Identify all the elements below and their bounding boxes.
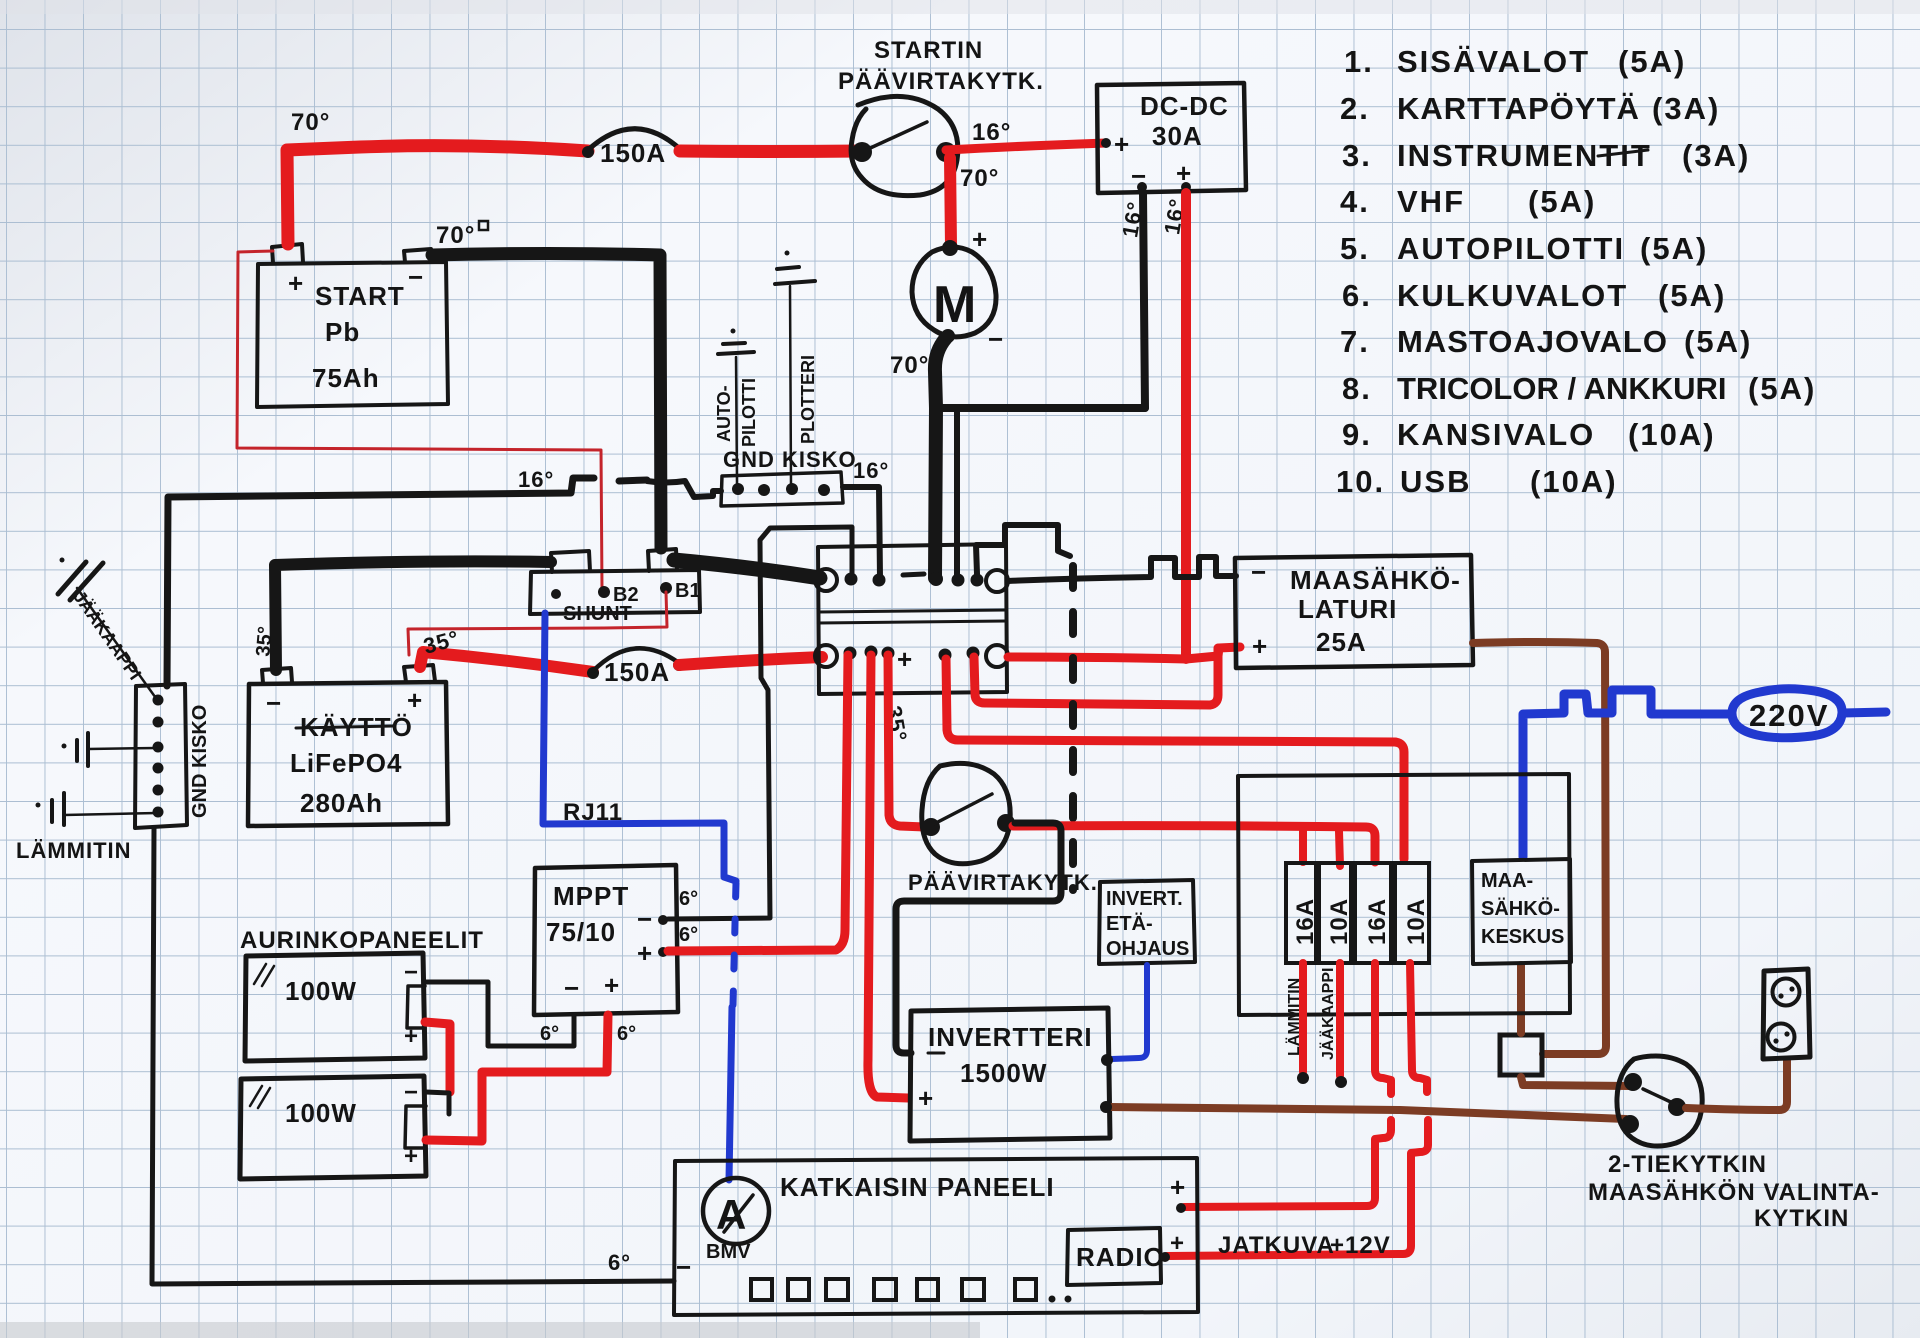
AC source 220V bbox=[1732, 689, 1886, 738]
svg-text:−: − bbox=[1251, 557, 1267, 587]
AC inlet connector block (square) bbox=[1500, 1035, 1542, 1075]
wire: busbar + ring to shore charger + (red) bbox=[1008, 647, 1240, 659]
svg-text:BMV: BMV bbox=[706, 1241, 751, 1263]
svg-text:MAA-: MAA- bbox=[1481, 870, 1533, 892]
svg-text:AUTOPILOTTI: AUTOPILOTTI bbox=[1397, 231, 1625, 266]
svg-text:16A: 16A bbox=[1364, 898, 1391, 945]
svg-text:GND KISKO: GND KISKO bbox=[189, 705, 211, 818]
svg-text:7.: 7. bbox=[1340, 324, 1370, 359]
shore panel MAA-SAHKO-KESKUS bbox=[1472, 859, 1571, 964]
svg-text:SÄHKÖ-: SÄHKÖ- bbox=[1481, 897, 1560, 920]
svg-text:KULKUVALOT: KULKUVALOT bbox=[1397, 278, 1628, 313]
svg-text:70°: 70° bbox=[436, 222, 475, 249]
svg-text:16°: 16° bbox=[853, 458, 889, 483]
wire: 16mm2 black GND-kisko to busbar area with gap dash bbox=[167, 467, 647, 686]
ground rail GND KISKO 2 (mid) bbox=[647, 447, 857, 506]
solar charger U2 MPPT 75/10 bbox=[534, 865, 698, 1015]
svg-text:(5A): (5A) bbox=[1640, 231, 1708, 266]
svg-text:TRICOLOR / ANKKURI: TRICOLOR / ANKKURI bbox=[1397, 371, 1727, 406]
svg-text:MAASÄHKÖN VALINTA-: MAASÄHKÖN VALINTA- bbox=[1588, 1179, 1880, 1206]
busbar/battery-switch panel bbox=[815, 544, 1008, 744]
wire: 220V to shore panel (blue with hop) bbox=[1523, 690, 1731, 857]
svg-text:(5A): (5A) bbox=[1528, 184, 1596, 219]
wire: M - down and DC-DC - junction (black) bbox=[890, 193, 1190, 578]
svg-text:KESKUS: KESKUS bbox=[1481, 926, 1564, 948]
svg-text:+: + bbox=[1252, 631, 1268, 661]
svg-text:AURINKOPANEELIT: AURINKOPANEELIT bbox=[240, 927, 484, 954]
svg-text:A: A bbox=[716, 1191, 746, 1238]
svg-text:1.: 1. bbox=[1344, 44, 1374, 79]
svg-text:RADIO: RADIO bbox=[1076, 1242, 1165, 1272]
svg-text:6°: 6° bbox=[608, 1250, 631, 1275]
svg-text:+: + bbox=[1170, 1172, 1186, 1202]
node hook: spare terminal stub off busbar bbox=[976, 525, 1070, 574]
svg-text:+: + bbox=[897, 644, 913, 674]
shore charger U3 MAASAHKO-LATURI 25A bbox=[1235, 555, 1473, 668]
svg-text:Pb: Pb bbox=[325, 317, 360, 347]
solar panel PV2 100W bbox=[240, 1076, 426, 1179]
wire: fuse F2 to busbar + ring (red) bbox=[679, 657, 822, 665]
svg-text:+12V: +12V bbox=[1330, 1232, 1391, 1259]
svg-text:−: − bbox=[564, 973, 580, 1003]
svg-text:−: − bbox=[404, 959, 419, 986]
svg-text:JÄÄKAAPPI: JÄÄKAAPPI bbox=[1319, 968, 1337, 1060]
svg-text:−: − bbox=[408, 262, 424, 292]
svg-text:B1: B1 bbox=[675, 580, 701, 602]
wire: busbar + to main switch S2 (red) bbox=[888, 655, 925, 827]
wire: inverter AC out to selector switch (brown) bbox=[1110, 1107, 1626, 1119]
wire: fuse 16A-1 output to heater load bbox=[1285, 963, 1309, 1084]
svg-text:−: − bbox=[404, 1079, 419, 1106]
svg-text:AUTO-: AUTO- bbox=[714, 385, 734, 442]
svg-text:PÄÄVIRTAKYTK.: PÄÄVIRTAKYTK. bbox=[838, 68, 1044, 95]
breaker panel KATKAISIN PANEELI bbox=[674, 1158, 1198, 1315]
fuse block F5 16A bbox=[1355, 863, 1391, 963]
fuse block F3 16A bbox=[1286, 863, 1319, 963]
svg-text:KYTKIN: KYTKIN bbox=[1754, 1205, 1849, 1232]
svg-text:LATURI: LATURI bbox=[1298, 594, 1397, 624]
load tap capacitor symbol mid-left bbox=[62, 733, 158, 766]
wire: busbar - to shore charger - (black zigzag) bbox=[1008, 557, 1236, 581]
dashed route marker (bulkhead) bbox=[1069, 566, 1077, 890]
switch S1 STARTIN PAAVIRTAKYTK. bbox=[838, 37, 1044, 196]
wire: busbar + to aft fuse 10A-4 (red long) bbox=[946, 659, 1404, 859]
wire: LiFePO4 + to fuse F2 (35mm2 red) bbox=[420, 625, 593, 672]
wire: fuse F1 to main switch S1 (red) bbox=[680, 145, 862, 159]
svg-text:35°: 35° bbox=[252, 625, 277, 657]
svg-text:6°: 6° bbox=[679, 924, 698, 946]
svg-text:4.: 4. bbox=[1340, 184, 1370, 219]
motor M1 bbox=[912, 224, 1004, 354]
svg-text:9.: 9. bbox=[1342, 417, 1372, 452]
inverter remote INVERT. ETA-OHJAUS bbox=[1099, 880, 1195, 964]
svg-text:30A: 30A bbox=[1152, 121, 1203, 151]
svg-text:−: − bbox=[637, 904, 653, 934]
svg-text:STARTIN: STARTIN bbox=[874, 37, 983, 64]
svg-text:(10A): (10A) bbox=[1530, 464, 1618, 499]
fuse block F4 10A bbox=[1319, 863, 1353, 963]
svg-text:+: + bbox=[1170, 1230, 1185, 1257]
wire: shore center to connector (brown) bbox=[1517, 965, 1525, 1033]
svg-text:(5A): (5A) bbox=[1658, 278, 1726, 313]
svg-text:100W: 100W bbox=[285, 1098, 357, 1128]
svg-text:6°: 6° bbox=[617, 1023, 636, 1045]
svg-text:START: START bbox=[315, 281, 405, 311]
svg-text:6.: 6. bbox=[1342, 278, 1372, 313]
load tap AUTO-PILOTTI on gnd rail bbox=[714, 329, 759, 485]
svg-text:(5A): (5A) bbox=[1684, 324, 1752, 359]
svg-text:−: − bbox=[266, 688, 282, 718]
node B2 bbox=[598, 584, 639, 606]
wire: selector to outlet (brown) bbox=[1686, 1060, 1787, 1110]
ground rail GND KISKO left bbox=[135, 684, 211, 828]
wire: S1 to motor M + (70mm2 red) bbox=[950, 158, 999, 246]
svg-text:SHUNT: SHUNT bbox=[563, 603, 632, 625]
svg-text:(10A): (10A) bbox=[1628, 417, 1716, 452]
fuse F2 150A bbox=[587, 648, 685, 687]
svg-text:(5A): (5A) bbox=[1748, 371, 1816, 406]
svg-text:INVERTTERI: INVERTTERI bbox=[928, 1022, 1093, 1052]
svg-text:+: + bbox=[604, 970, 620, 1000]
svg-text:150A: 150A bbox=[604, 657, 670, 687]
wire: thin red B1/B2 sense to LiFePO4 + bbox=[408, 592, 667, 655]
svg-text:100W: 100W bbox=[285, 976, 357, 1006]
svg-text:DC-DC: DC-DC bbox=[1140, 91, 1229, 121]
svg-text:USB: USB bbox=[1400, 464, 1471, 499]
svg-text:PLOTTERI: PLOTTERI bbox=[798, 355, 818, 444]
svg-text:5.: 5. bbox=[1340, 231, 1370, 266]
svg-text:10A: 10A bbox=[1326, 898, 1353, 945]
svg-text:8.: 8. bbox=[1342, 371, 1372, 406]
wire: PV1 + to PV2 - (series link) bbox=[425, 1022, 450, 1092]
load list: fuse legend items 1-10 bbox=[1336, 44, 1816, 499]
wire: remote to inverter (blue) bbox=[1112, 965, 1147, 1059]
svg-text:16°: 16° bbox=[972, 119, 1011, 146]
svg-text:75/10: 75/10 bbox=[546, 917, 616, 947]
svg-text:+: + bbox=[1114, 129, 1130, 159]
wire: gnd rail 2 to busbar (16mm2) bbox=[843, 458, 889, 578]
wire: MPPT + to busbar + (red) bbox=[668, 655, 848, 951]
wire: MPPT - to busbar (6mm2 black) bbox=[668, 527, 852, 919]
svg-text:10A: 10A bbox=[1403, 898, 1430, 945]
svg-text:KATKAISIN PANEELI: KATKAISIN PANEELI bbox=[780, 1172, 1055, 1202]
wire: thin red START + sense to shunt B2 bbox=[237, 251, 602, 589]
svg-text:LiFePO4: LiFePO4 bbox=[290, 748, 402, 778]
wire: fuse feed drop 10A-2 bbox=[1339, 831, 1340, 866]
svg-text:+: + bbox=[288, 268, 304, 298]
solar panel PV1 100W bbox=[245, 953, 425, 1061]
wire: LiFePO4 - to shunt left post (35mm2 black) bbox=[252, 561, 551, 670]
svg-text:75Ah: 75Ah bbox=[312, 363, 380, 393]
fuse block F6 10A bbox=[1395, 863, 1430, 963]
wire: START + to fuse F1 (70mm2 red) bbox=[287, 109, 588, 244]
wire: DC-DC + down (red) bbox=[1181, 193, 1191, 659]
svg-text:3.: 3. bbox=[1342, 138, 1372, 173]
svg-text:LÄMMITIN: LÄMMITIN bbox=[16, 838, 132, 863]
svg-text:1500W: 1500W bbox=[960, 1058, 1047, 1088]
svg-text:6°: 6° bbox=[679, 888, 698, 910]
svg-text:6°: 6° bbox=[540, 1023, 559, 1045]
svg-text:16A: 16A bbox=[1292, 898, 1319, 945]
battery monitor BMV bbox=[703, 1178, 769, 1263]
svg-text:MAASÄHKÖ-: MAASÄHKÖ- bbox=[1290, 565, 1461, 595]
svg-text:10.: 10. bbox=[1336, 464, 1385, 499]
wire: shunt to busbar ring (35mm2 black diagonal) bbox=[674, 560, 820, 578]
svg-text:RJ11: RJ11 bbox=[563, 799, 623, 826]
svg-text:+: + bbox=[407, 685, 423, 715]
fuse F1 150A bbox=[582, 129, 686, 168]
wire: S2 to fuse block 16A/10A/16A (red) bbox=[1013, 826, 1375, 862]
node B1 bbox=[660, 580, 701, 602]
svg-text:16°: 16° bbox=[518, 467, 554, 492]
shunt R-SHUNT bbox=[530, 549, 700, 625]
wire: connector to selector switch top (brown) bbox=[1521, 1077, 1630, 1086]
svg-text:−: − bbox=[988, 324, 1004, 354]
load JAAKAAPPI tap to gnd rail bbox=[58, 558, 158, 702]
svg-text:M: M bbox=[933, 276, 976, 334]
wire: START - to shunt (70mm2 black) bbox=[432, 221, 661, 548]
wire: busbar + to inverter + (red) bbox=[868, 655, 908, 1098]
svg-text:70°: 70° bbox=[890, 352, 929, 379]
svg-text:70°: 70° bbox=[960, 165, 999, 192]
load tap PLOTTERI on gnd rail bbox=[775, 251, 818, 486]
inverter U4 INVERTTERI 1500W bbox=[910, 1008, 1110, 1141]
svg-text:PILOTTI: PILOTTI bbox=[739, 378, 759, 447]
svg-text:KANSIVALO: KANSIVALO bbox=[1397, 417, 1595, 452]
switch S2 PAAVIRTAKYTK bbox=[908, 763, 1098, 895]
svg-text:2-TIEKYTKIN: 2-TIEKYTKIN bbox=[1608, 1151, 1767, 1178]
svg-text:ETÄ-: ETÄ- bbox=[1106, 912, 1153, 935]
svg-text:+: + bbox=[637, 938, 653, 968]
svg-text:+: + bbox=[918, 1083, 934, 1113]
svg-text:MPPT: MPPT bbox=[553, 881, 629, 911]
svg-text:−: − bbox=[676, 1252, 692, 1282]
load LAMMITIN tap to gnd rail bbox=[16, 793, 157, 863]
battery B1 START Pb 75Ah : box bbox=[257, 244, 448, 407]
radio RADIO box bbox=[1067, 1228, 1185, 1285]
svg-text:150A: 150A bbox=[600, 138, 666, 168]
wire: RJ11 control cable shunt to BMV (blue) bbox=[543, 613, 736, 1180]
svg-text:LÄMMITIN: LÄMMITIN bbox=[1285, 978, 1303, 1056]
wire: fuse 16A-3 output to breaker panel + bbox=[1375, 963, 1391, 1094]
AC distribution enclosure (big box) bbox=[1238, 774, 1570, 1015]
wire: S1 to DC-DC + input (16mm2 red) bbox=[946, 119, 1106, 150]
svg-text:70°: 70° bbox=[291, 109, 330, 136]
wire: busbar + to shore charger + (red) bbox=[974, 648, 1218, 705]
converter U1 DC-DC 30A bbox=[1097, 83, 1246, 193]
svg-text:25A: 25A bbox=[1316, 627, 1367, 657]
svg-text:KARTTAPÖYTÄ: KARTTAPÖYTÄ bbox=[1397, 91, 1640, 126]
svg-text:OHJAUS: OHJAUS bbox=[1106, 938, 1189, 960]
battery B2 KAYTTO LiFePO4 280Ah bbox=[248, 665, 448, 826]
svg-text:(3A): (3A) bbox=[1652, 91, 1720, 126]
selector switch S3 2-TIEKYTKIN bbox=[1588, 1056, 1880, 1232]
wire: fuse feed drop 16A-1 bbox=[1299, 831, 1307, 862]
svg-text:280Ah: 280Ah bbox=[300, 788, 383, 818]
svg-text:MASTOAJOVALO: MASTOAJOVALO bbox=[1397, 324, 1668, 359]
wire: fuse 10A-2 output to fridge load bbox=[1319, 963, 1347, 1088]
wire: PV1 - to MPPT - (black) bbox=[425, 982, 574, 1046]
svg-text:2.: 2. bbox=[1340, 91, 1370, 126]
svg-text:(3A): (3A) bbox=[1682, 138, 1750, 173]
svg-text:(5A): (5A) bbox=[1618, 44, 1686, 79]
wire: PV2 + to MPPT + (red) bbox=[426, 1015, 636, 1141]
svg-text:220V: 220V bbox=[1749, 698, 1829, 733]
wire: fuse 10A-4 output to RADIO + bbox=[1410, 963, 1427, 1092]
svg-text:VHF: VHF bbox=[1397, 184, 1465, 219]
wire: shore charger + brown AC lead to selector bbox=[1473, 642, 1606, 1054]
svg-text:INVERT.: INVERT. bbox=[1106, 888, 1183, 910]
svg-text:+: + bbox=[972, 224, 988, 254]
svg-text:SISÄVALOT: SISÄVALOT bbox=[1397, 44, 1590, 79]
wire: gnd rail to breaker panel - (6mm2 black) bbox=[152, 828, 674, 1284]
svg-text:JATKUVA: JATKUVA bbox=[1218, 1232, 1335, 1259]
wire: S2 to inverter - (black) bbox=[896, 823, 1061, 1053]
AC outlet (wall socket) bbox=[1763, 969, 1810, 1059]
